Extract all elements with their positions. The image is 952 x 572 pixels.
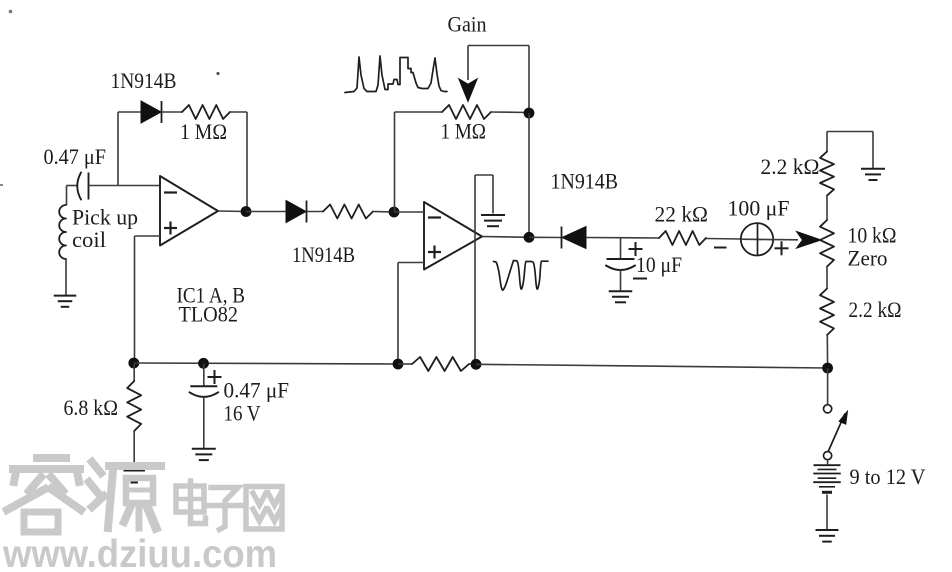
ground G7 (battery) bbox=[816, 530, 839, 542]
wire node to C4 bbox=[203, 363, 205, 386]
wire op-amp2 plus input bbox=[398, 263, 424, 365]
wire out-node to D3 bbox=[529, 236, 562, 238]
capacitor C3 100 uF (circle symbol) bbox=[741, 223, 774, 255]
wire pot left lead bbox=[395, 111, 443, 113]
wire op-amp2 output bbox=[482, 236, 529, 239]
svg-text:1N914B: 1N914B bbox=[292, 242, 355, 267]
waveform output pulses bbox=[494, 261, 549, 291]
wire node to switch bbox=[827, 368, 829, 405]
label 0.47 uF (C1) bbox=[44, 144, 107, 169]
svg-text:1 MΩ: 1 MΩ bbox=[441, 119, 487, 144]
wire rail left segment bbox=[134, 363, 398, 364]
svg-text:coil: coil bbox=[72, 227, 106, 252]
resistor R8 (rail) bbox=[412, 357, 469, 371]
label 1N914B (D1) bbox=[111, 68, 177, 93]
wire D2 to R2 bbox=[307, 211, 324, 213]
capacitor C4 0.47 uF 16 V bbox=[190, 386, 219, 448]
wire C1 to op-amp inverting input bbox=[89, 185, 161, 187]
wire op-amp1 non-inverting input bbox=[135, 236, 161, 363]
svg-text:2.2 kΩ: 2.2 kΩ bbox=[849, 297, 902, 322]
wire top to ground right bbox=[827, 132, 873, 169]
wire feedback left vertical bbox=[117, 112, 119, 186]
label 10 uF (C2) bbox=[636, 252, 682, 277]
svg-text:Gain: Gain bbox=[448, 12, 487, 37]
wire rail to R8 bbox=[398, 363, 412, 365]
resistor R9 6.8 kohm bbox=[127, 381, 141, 431]
svg-text:2.2 kΩ: 2.2 kΩ bbox=[761, 154, 820, 179]
switch S1 contact bottom bbox=[824, 452, 832, 460]
switch S1 arm bbox=[828, 411, 847, 451]
wire R7 to rail node bbox=[826, 335, 828, 368]
svg-text:100 μF: 100 μF bbox=[728, 196, 790, 221]
node rail left (6.8k) bbox=[128, 358, 139, 369]
svg-text:10 kΩ: 10 kΩ bbox=[848, 223, 897, 248]
svg-text:1 MΩ: 1 MΩ bbox=[180, 119, 227, 144]
svg-text:Pick up: Pick up bbox=[72, 205, 138, 230]
wire rail right segment bbox=[476, 364, 828, 368]
resistor R7 2.2 kohm (bottom) bbox=[820, 289, 834, 335]
wire R5 to pot bbox=[826, 196, 828, 220]
wire pot right lead bbox=[491, 111, 529, 114]
label Gain bbox=[448, 12, 487, 37]
wire pickup coil top to capacitor bbox=[67, 186, 78, 206]
diode D2 1N914B (interstage) bbox=[286, 201, 307, 223]
label 2.2 kohm (R7) bbox=[849, 297, 902, 322]
node op-amp2 inverting input bbox=[389, 207, 400, 218]
plus sign (C2) bbox=[629, 242, 643, 256]
svg-text:22 kΩ: 22 kΩ bbox=[655, 201, 709, 226]
wire R8 to node bbox=[469, 363, 476, 365]
svg-text:0.47 μF: 0.47 μF bbox=[44, 144, 107, 169]
svg-text:TLO82: TLO82 bbox=[179, 302, 239, 327]
label Pick up coil bbox=[72, 205, 138, 253]
wire node2 to op-amp2 minus bbox=[394, 211, 424, 213]
resistor R5 2.2 kohm (top) bbox=[820, 152, 834, 196]
battery B1 9 to 12 V bbox=[813, 465, 841, 492]
op-amp U1B (IC1 B) bbox=[424, 202, 482, 270]
wire op-amp1 output bbox=[218, 210, 246, 213]
waveform input noise bbox=[345, 56, 447, 93]
watermark url bbox=[2, 533, 277, 572]
wire pot to R7 bbox=[826, 267, 828, 289]
wire R2 to node2 bbox=[373, 211, 394, 214]
wire op-amp2 power rail vertical bbox=[474, 175, 476, 364]
label 9 to 12 V bbox=[850, 464, 926, 489]
wire pot node down to output bbox=[528, 113, 530, 237]
potentiometer R6 10 kohm (Zero) bbox=[820, 220, 834, 267]
svg-text:www.dziuu.com: www.dziuu.com bbox=[2, 533, 277, 572]
label 1 Mohm (R3) bbox=[441, 119, 487, 144]
resistor R2 (interstage) bbox=[323, 205, 373, 219]
ground G2 (op-amp2 power) bbox=[481, 215, 505, 226]
svg-text:10 μF: 10 μF bbox=[636, 252, 682, 277]
node rail op-amp2 power bbox=[471, 359, 482, 370]
wire 6.8k to ground bbox=[133, 431, 135, 470]
label 1N914B (D3) bbox=[551, 169, 619, 194]
wiper arrow (Zero pot) bbox=[797, 232, 822, 249]
wire coil to ground bbox=[65, 259, 67, 295]
wire node to 6.8k bbox=[133, 363, 135, 381]
wire node2 up to pot bbox=[394, 112, 396, 212]
switch S1 contact top bbox=[824, 405, 832, 413]
ground G6 (C4) bbox=[192, 449, 216, 460]
label 100 uF (C3) bbox=[728, 196, 790, 221]
ground G5 (6.8k) bbox=[123, 471, 145, 483]
wire battery to ground bbox=[826, 495, 828, 530]
svg-text:6.8 kΩ: 6.8 kΩ bbox=[64, 395, 119, 420]
svg-text:1N914B: 1N914B bbox=[111, 68, 177, 93]
label IC1 A, B bbox=[177, 282, 246, 326]
label 1N914B (D2) bbox=[292, 242, 355, 267]
plus sign (C3) bbox=[775, 241, 789, 255]
label 1 Mohm (R1) bbox=[180, 119, 227, 144]
ground G3 (10uF) bbox=[609, 291, 633, 302]
ground G4 (top right) bbox=[861, 169, 885, 180]
node output op-amp1 bbox=[241, 206, 252, 217]
wire power stub to ground bbox=[475, 175, 493, 214]
capacitor C1 0.47 uF (input coupling) bbox=[77, 173, 88, 200]
wiper arrow (Gain) bbox=[459, 46, 477, 102]
svg-text:1N914B: 1N914B bbox=[551, 169, 619, 194]
diode D3 1N914B (output) bbox=[562, 227, 587, 249]
wire 100uF to arrow bbox=[774, 239, 799, 241]
label 2.2 kohm (R5) bbox=[761, 154, 820, 179]
speck bbox=[0, 10, 220, 186]
minus sign (C2) bbox=[633, 278, 647, 280]
label 22 kohm (R4) bbox=[655, 201, 709, 226]
svg-text:9 to 12 V: 9 to 12 V bbox=[850, 464, 926, 489]
resistor R1 1 Mohm (feedback) bbox=[182, 105, 230, 119]
capacitor C2 10 uF bbox=[606, 259, 635, 291]
minus sign (C3) bbox=[714, 247, 727, 249]
wire gain wiper top bbox=[468, 46, 529, 114]
ground G1 (pickup coil) bbox=[54, 296, 77, 307]
node pot right bbox=[524, 108, 535, 119]
diode D1 1N914B (feedback) bbox=[141, 101, 162, 123]
svg-text:0.47 μF: 0.47 μF bbox=[224, 378, 290, 403]
node rail right (battery) bbox=[822, 363, 833, 374]
wire feedback to diode bbox=[118, 111, 141, 113]
op-amp U1A (IC1 A) bbox=[160, 176, 218, 246]
wire top of 2.2k bbox=[826, 132, 828, 152]
node rail cap bbox=[198, 358, 209, 369]
label 6.8 kohm (R9) bbox=[64, 395, 119, 420]
potentiometer R3 1 Mohm (Gain) bbox=[442, 105, 491, 119]
wire 10uF stub bbox=[620, 238, 622, 259]
watermark CJK bbox=[7, 458, 282, 532]
wire R4 to 100uF bbox=[706, 238, 741, 241]
node op-amp2 output bbox=[524, 232, 535, 243]
wire D1 to R1 bbox=[162, 111, 183, 113]
wire R1 to output node bbox=[230, 112, 247, 212]
svg-text:16 V: 16 V bbox=[224, 401, 261, 426]
svg-text:Zero: Zero bbox=[848, 246, 888, 271]
label 10 kohm Zero (R6) bbox=[848, 223, 897, 271]
plus sign (C4) bbox=[208, 370, 222, 384]
node rail op-amp2 plus bbox=[393, 359, 404, 370]
wire D3 to 22k bbox=[586, 237, 659, 240]
wire node to D2 bbox=[246, 211, 286, 213]
wire switch to battery bbox=[827, 460, 829, 465]
resistor R4 22 kohm bbox=[659, 231, 706, 245]
label 0.47 uF 16 V (C4) bbox=[224, 378, 290, 426]
inductor pickup coil bbox=[59, 205, 66, 259]
